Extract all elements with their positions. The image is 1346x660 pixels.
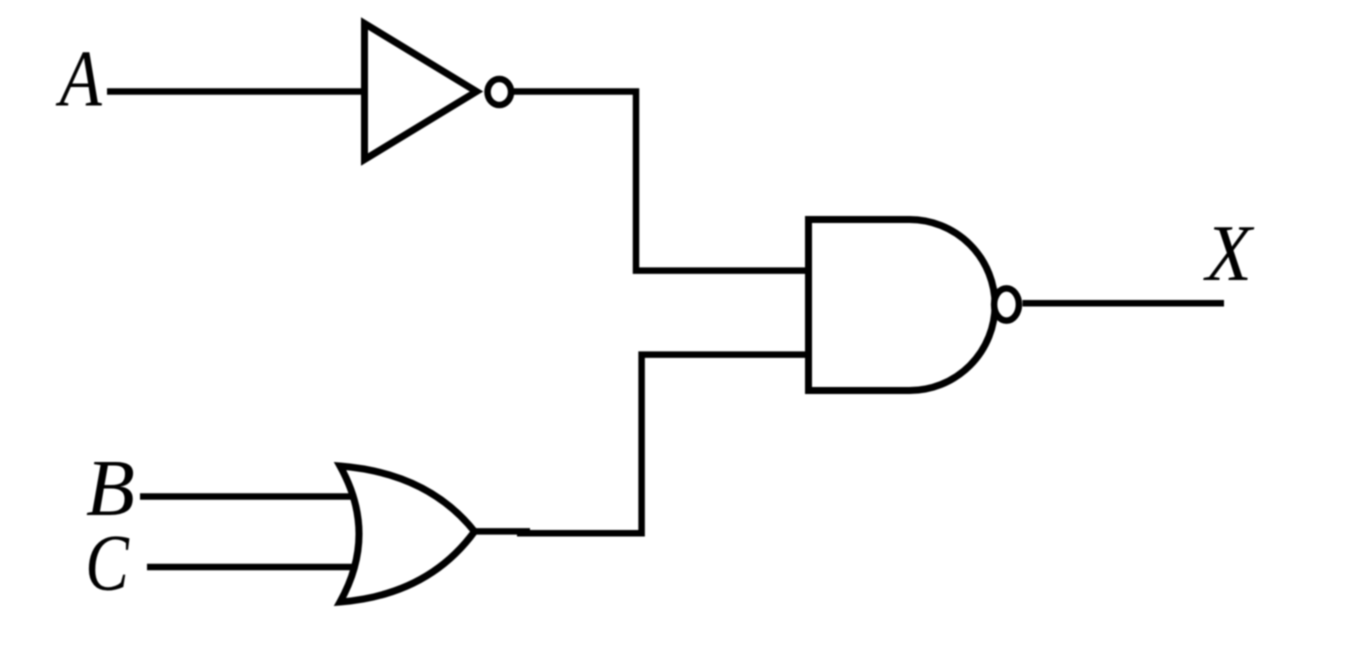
svg-text:C: C xyxy=(85,520,130,608)
NAND gate U2 body xyxy=(809,220,996,391)
wire B to OR input xyxy=(140,493,354,500)
NAND gate U2 output bubble xyxy=(994,288,1019,320)
inverter U1 output bubble xyxy=(488,79,512,105)
OR gate U3 body xyxy=(340,466,475,602)
wire inverter output to NAND top input xyxy=(511,92,809,271)
wire OR output vertical up to NAND bottom input xyxy=(517,355,809,534)
svg-text:A: A xyxy=(55,36,103,124)
inverter U1 triangle xyxy=(365,24,477,160)
wire NAND output to X xyxy=(1023,300,1225,307)
svg-text:X: X xyxy=(1203,210,1255,298)
wire C to OR input xyxy=(147,564,354,571)
wire OR gate output stub xyxy=(474,528,530,535)
wire A to inverter input xyxy=(107,88,368,95)
